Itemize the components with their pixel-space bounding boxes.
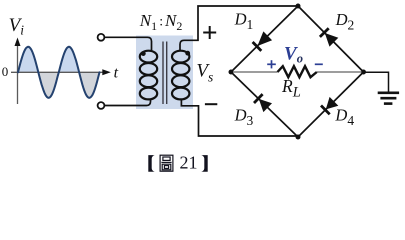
label minus (Vs)	[205, 103, 217, 105]
terminal bottom-left	[98, 102, 105, 109]
label + (Vo)	[267, 60, 276, 68]
sine negative lobe 1 fill	[38, 72, 58, 98]
t axis horizontal	[11, 69, 111, 75]
bridge edge bottom-right	[298, 72, 364, 137]
svg-text:0: 0	[2, 64, 9, 79]
caption hanzi tu (figure)	[160, 155, 173, 171]
transformer shading rect	[136, 36, 193, 110]
node bottom	[296, 135, 301, 140]
ground symbol	[378, 93, 399, 104]
wire load right (gray)	[317, 71, 362, 73]
label + (Vs)	[203, 26, 216, 39]
bridge edge bottom-left	[231, 72, 298, 137]
bridge edge top-right	[298, 6, 364, 72]
svg-text:t: t	[114, 64, 119, 81]
Vi axis vertical	[15, 38, 21, 105]
wire secondary top to bridge top node	[180, 6, 298, 51]
polarity dot primary	[141, 51, 146, 56]
resistor RL	[278, 66, 317, 77]
bridge edge top-left	[231, 6, 298, 72]
sine positive lobe 2 fill	[59, 47, 79, 73]
primary coil L1	[140, 51, 157, 100]
wire right node to ground	[366, 72, 389, 91]
label minus (Vo)	[315, 63, 323, 65]
svg-text::: :	[159, 15, 163, 30]
secondary coil L2	[172, 51, 189, 100]
caption bracket left	[148, 155, 154, 172]
caption bracket right	[201, 155, 207, 172]
node top	[296, 4, 301, 9]
diode D1	[253, 31, 273, 51]
sine wave Vi curve	[18, 47, 100, 98]
wire primary top	[105, 37, 152, 51]
diode D2	[320, 28, 338, 46]
wire secondary bottom to bridge bottom node	[181, 99, 298, 136]
wire load left (gray)	[233, 71, 278, 73]
wire primary bottom	[105, 99, 151, 106]
sine positive lobe 1 fill	[18, 47, 38, 73]
node left	[229, 70, 234, 75]
transformer core	[163, 42, 167, 105]
node right	[361, 70, 366, 75]
diode D3	[254, 94, 272, 112]
terminal top-left	[98, 34, 105, 41]
polarity dot secondary	[185, 51, 190, 56]
sine negative lobe 2 fill	[79, 72, 99, 98]
diode D4	[321, 97, 338, 114]
svg-text:21: 21	[180, 153, 198, 173]
